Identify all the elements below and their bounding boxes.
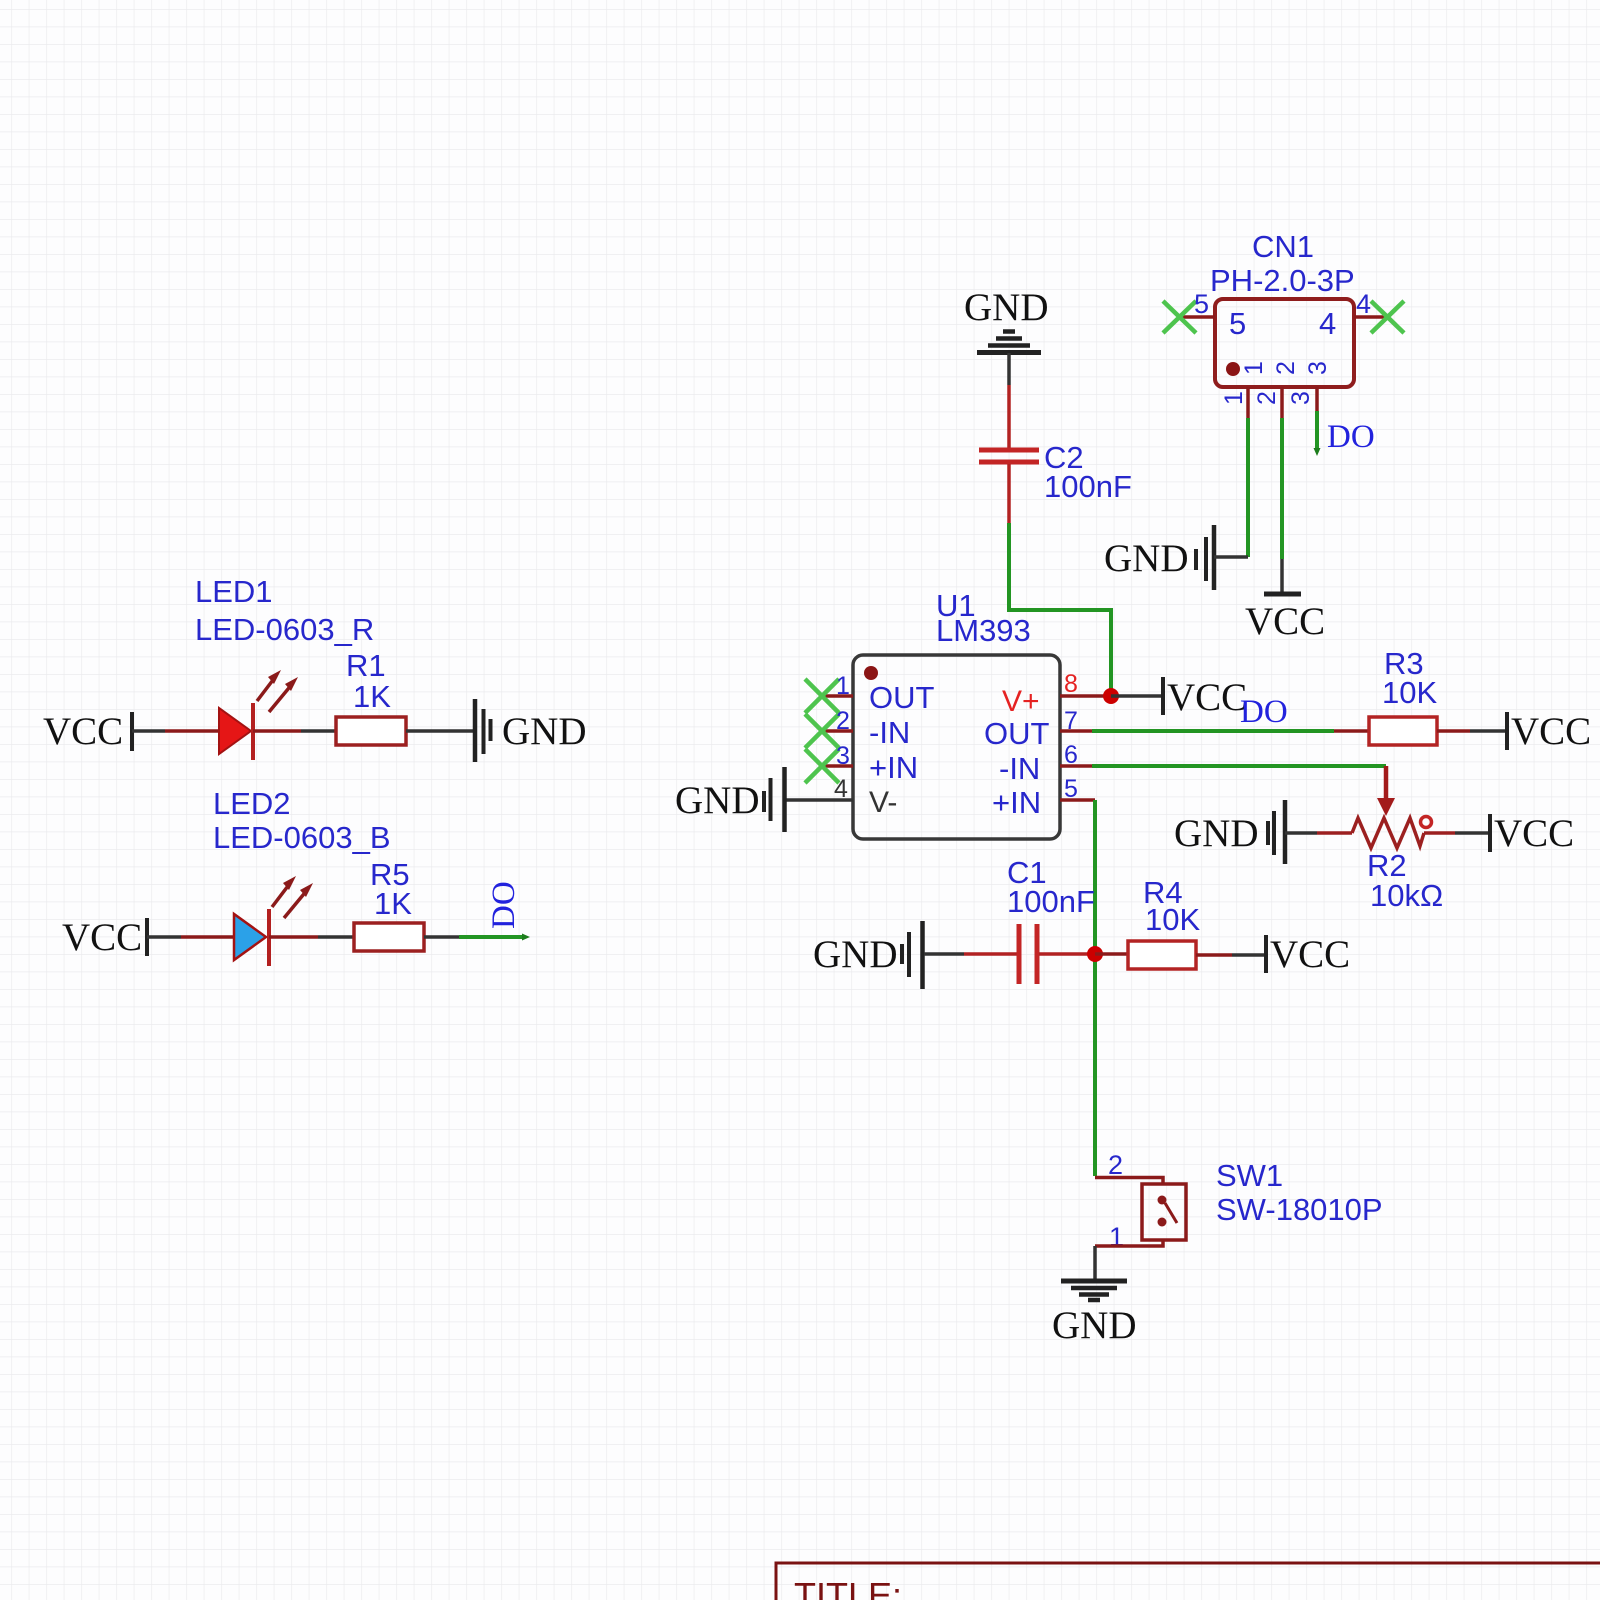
pin 5 stub CN1 bbox=[1180, 315, 1215, 319]
resistor R1 bbox=[336, 717, 406, 745]
pin 5 stub U1 bbox=[1060, 798, 1095, 802]
pin wire C1 left bbox=[964, 952, 1017, 956]
svg-text:PH-2.0-3P: PH-2.0-3P bbox=[1210, 263, 1355, 298]
svg-text:VCC: VCC bbox=[1167, 676, 1247, 719]
svg-text:VCC: VCC bbox=[1270, 933, 1350, 976]
pin wire (cathode LED1) bbox=[253, 729, 301, 733]
svg-text:1: 1 bbox=[1240, 361, 1268, 375]
pin1 marker dot U1 bbox=[864, 666, 878, 680]
svg-text:VCC: VCC bbox=[1511, 710, 1591, 753]
wire R5 to DO stub bbox=[424, 935, 459, 939]
svg-text:LED2: LED2 bbox=[213, 786, 291, 821]
svg-text:2: 2 bbox=[1272, 361, 1300, 375]
svg-text:GND: GND bbox=[1104, 537, 1189, 580]
wire VCC to LED1 bbox=[132, 729, 165, 733]
svg-text:VCC: VCC bbox=[43, 710, 123, 753]
capacitor C1 bbox=[1019, 924, 1037, 984]
svg-text:LED1: LED1 bbox=[195, 574, 273, 609]
capacitor C2 bbox=[979, 450, 1039, 462]
pin 2 stub U1 bbox=[824, 729, 853, 733]
svg-text:TITLE:: TITLE: bbox=[794, 1575, 902, 1600]
svg-text:1K: 1K bbox=[374, 886, 412, 921]
wire SW1 to GND bbox=[1093, 1246, 1097, 1280]
pin wire R4 right bbox=[1196, 953, 1232, 957]
svg-text:LM393: LM393 bbox=[936, 613, 1031, 648]
svg-text:V+: V+ bbox=[1002, 685, 1040, 718]
pin 1 lead SW1 bbox=[1095, 1240, 1163, 1246]
pin 3 stub CN1 bottom bbox=[1315, 387, 1319, 411]
wire GND to C1 bbox=[924, 952, 964, 956]
pin 8 stub U1 bbox=[1060, 694, 1111, 698]
ground GND (R2, bar style mirrored) bbox=[1174, 800, 1317, 864]
pin wire R3 right bbox=[1437, 729, 1470, 733]
junction dot C1/R4/pin5 bbox=[1087, 946, 1103, 962]
wire pin6 to R2 wiper (green) bbox=[1092, 764, 1386, 768]
power flag VCC (R4) bbox=[1266, 933, 1350, 976]
pin 3 stub U1 bbox=[824, 764, 853, 768]
IC U1 body bbox=[853, 655, 1060, 839]
svg-text:1K: 1K bbox=[353, 679, 391, 714]
wire CN1 pin2 to VCC (green) bbox=[1280, 418, 1284, 559]
wire pin7 to R3 (green, net DO) bbox=[1092, 729, 1334, 733]
svg-text:-IN: -IN bbox=[999, 751, 1040, 786]
pin wire C1 right bbox=[1039, 952, 1095, 956]
wire C2 to V+ node (green) bbox=[1009, 523, 1111, 696]
pin1 marker dot CN1 bbox=[1226, 362, 1240, 376]
connector CN1 body bbox=[1215, 299, 1354, 387]
wire CN1 pin1 to GND (green) bbox=[1246, 418, 1250, 557]
svg-text:R1: R1 bbox=[346, 648, 386, 683]
net label VCC (LED2) bbox=[62, 916, 147, 959]
wire R2 to VCC bbox=[1455, 831, 1490, 835]
pin wire R3 left bbox=[1334, 729, 1369, 733]
wire R1 to GND bbox=[406, 729, 475, 733]
wire GND to C2 bbox=[1007, 353, 1011, 385]
no-connect X pin 3 bbox=[805, 749, 839, 783]
svg-text:GND: GND bbox=[502, 710, 587, 753]
pin wire C2 bottom bbox=[1007, 464, 1011, 523]
svg-text:10K: 10K bbox=[1382, 675, 1437, 710]
svg-text:V-: V- bbox=[869, 786, 897, 819]
svg-text:VCC: VCC bbox=[1245, 600, 1325, 643]
ground GND (C1, bar style) bbox=[813, 921, 923, 989]
svg-text:+IN: +IN bbox=[869, 750, 918, 785]
svg-text:OUT: OUT bbox=[984, 716, 1050, 751]
junction dot V+ node bbox=[1103, 688, 1119, 704]
power flag VCC (R2) bbox=[1490, 812, 1574, 855]
wire pin5 down to C1/R4 node and SW1 (green) bbox=[1093, 800, 1097, 1176]
pin wire (anode LED1) bbox=[165, 729, 220, 733]
svg-text:LED-0603_B: LED-0603_B bbox=[213, 820, 391, 855]
svg-text:GND: GND bbox=[1174, 812, 1259, 855]
svg-text:CN1: CN1 bbox=[1252, 229, 1314, 264]
svg-text:SW1: SW1 bbox=[1216, 1158, 1283, 1193]
pin 7 stub U1 bbox=[1060, 729, 1092, 733]
ground GND (above C2, earth style) bbox=[964, 286, 1049, 353]
no-connect X pin 4 bbox=[1371, 301, 1404, 333]
svg-text:+IN: +IN bbox=[992, 785, 1041, 820]
pin 4 stub CN1 bbox=[1354, 315, 1387, 319]
wire R3 to VCC bbox=[1470, 729, 1507, 733]
svg-text:-IN: -IN bbox=[869, 715, 910, 750]
title block frame bbox=[776, 1563, 1600, 1600]
pin wire R4 left bbox=[1095, 952, 1128, 956]
pin 1 stub CN1 bottom bbox=[1246, 387, 1250, 418]
net label VCC (LED1) bbox=[43, 710, 132, 753]
pin wire C2 top bbox=[1007, 385, 1011, 448]
ground GND (LED1, bar style) bbox=[475, 699, 587, 762]
svg-text:2: 2 bbox=[1253, 391, 1281, 405]
svg-text:2: 2 bbox=[1108, 1150, 1123, 1180]
power flag VCC (pin8) bbox=[1163, 676, 1247, 719]
ground GND (U1 pin4, bar style) bbox=[675, 767, 785, 832]
pin 1 stub U1 bbox=[824, 694, 853, 698]
no-connect X pin 1 bbox=[805, 679, 839, 713]
pin 2 lead SW1 bbox=[1095, 1178, 1163, 1185]
wire CN1 pin3 DO stub (green) bbox=[1315, 411, 1319, 450]
svg-text:3: 3 bbox=[1304, 361, 1332, 375]
svg-text:1: 1 bbox=[1220, 391, 1248, 405]
svg-text:DO: DO bbox=[1327, 419, 1375, 455]
svg-text:2: 2 bbox=[836, 707, 850, 735]
svg-text:OUT: OUT bbox=[869, 680, 935, 715]
svg-text:4: 4 bbox=[834, 775, 848, 803]
no-connect X pin 5 bbox=[1163, 301, 1196, 333]
wire LED2 to R5 bbox=[318, 935, 354, 939]
potentiometer R2 bbox=[1317, 766, 1455, 848]
svg-text:10kΩ: 10kΩ bbox=[1370, 878, 1443, 913]
svg-text:GND: GND bbox=[675, 779, 760, 822]
svg-text:GND: GND bbox=[964, 286, 1049, 329]
svg-text:4: 4 bbox=[1356, 289, 1371, 319]
wire LED1 to R1 bbox=[301, 729, 336, 733]
pin wire (cathode LED2) bbox=[269, 935, 318, 939]
svg-text:100nF: 100nF bbox=[1007, 884, 1095, 919]
resistor R5 bbox=[354, 923, 424, 951]
resistor R3 bbox=[1369, 717, 1437, 745]
pin 6 stub U1 bbox=[1060, 764, 1092, 768]
wire VCC to LED2 bbox=[147, 935, 181, 939]
svg-text:3: 3 bbox=[836, 742, 850, 770]
svg-text:SW-18010P: SW-18010P bbox=[1216, 1192, 1383, 1227]
ground GND (SW1, earth style) bbox=[1052, 1281, 1137, 1347]
svg-text:5: 5 bbox=[1229, 306, 1246, 341]
svg-text:GND: GND bbox=[1052, 1304, 1137, 1347]
LED LED2 (blue) bbox=[234, 876, 313, 966]
wire DO net stub (green) bbox=[459, 935, 524, 939]
svg-text:DO: DO bbox=[1240, 694, 1288, 730]
svg-text:VCC: VCC bbox=[1494, 812, 1574, 855]
power flag VCC (R3) bbox=[1507, 710, 1591, 753]
svg-text:10K: 10K bbox=[1145, 902, 1200, 937]
svg-text:5: 5 bbox=[1194, 289, 1209, 319]
pin wire (anode LED2) bbox=[181, 935, 235, 939]
svg-text:LED-0603_R: LED-0603_R bbox=[195, 612, 374, 647]
power flag VCC (below CN1) bbox=[1245, 594, 1325, 643]
no-connect X pin 2 bbox=[805, 714, 839, 748]
pin 2 stub CN1 bottom bbox=[1280, 387, 1284, 418]
LED LED1 (red) bbox=[219, 670, 298, 760]
svg-text:4: 4 bbox=[1319, 306, 1336, 341]
svg-text:DO: DO bbox=[486, 881, 522, 929]
svg-text:3: 3 bbox=[1287, 391, 1315, 405]
svg-text:VCC: VCC bbox=[62, 916, 142, 959]
svg-text:GND: GND bbox=[813, 933, 898, 976]
resistor R4 bbox=[1128, 941, 1196, 969]
switch SW1 body bbox=[1142, 1184, 1186, 1240]
svg-text:8: 8 bbox=[1064, 670, 1078, 698]
wire V+ node to VCC bbox=[1111, 694, 1163, 698]
svg-text:100nF: 100nF bbox=[1044, 469, 1132, 504]
wire R4 to VCC bbox=[1232, 953, 1266, 957]
ground GND (CN1, bar style mirrored) bbox=[1104, 525, 1248, 590]
svg-text:1: 1 bbox=[836, 672, 850, 700]
pin 4 stub U1 bbox=[786, 798, 853, 802]
